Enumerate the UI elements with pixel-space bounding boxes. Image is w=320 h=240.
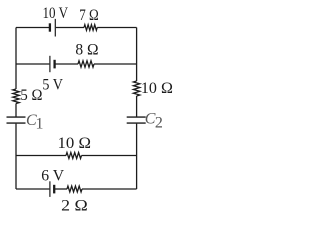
svg-text:5 Ω: 5 Ω [20, 87, 42, 104]
svg-text:2: 2 [155, 115, 163, 132]
svg-text:7 Ω: 7 Ω [79, 7, 99, 24]
svg-text:10 Ω: 10 Ω [141, 80, 173, 97]
svg-text:8 Ω: 8 Ω [75, 42, 98, 59]
svg-text:10 V: 10 V [43, 5, 69, 22]
svg-text:1: 1 [36, 116, 44, 133]
svg-text:5 V: 5 V [42, 77, 63, 94]
svg-text:6 V: 6 V [41, 168, 64, 185]
svg-text:2 Ω: 2 Ω [61, 198, 88, 215]
svg-text:10 Ω: 10 Ω [58, 135, 92, 152]
